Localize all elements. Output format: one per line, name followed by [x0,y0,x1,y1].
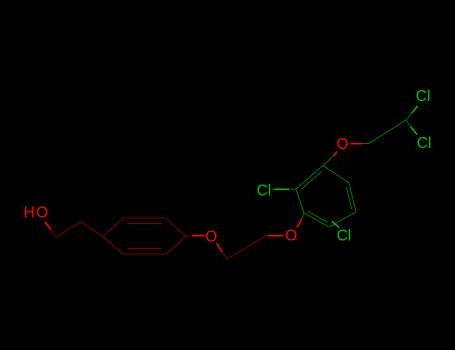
bond C6-Cl top right bright half [412,106,418,113]
bond ring-O2 bright dash [192,235,205,237]
bond O-C1 bright half [45,222,51,230]
bond ring-Otop dim part [323,156,333,165]
bond ring-O2 dim part [186,235,192,238]
bond O2-C3 dim half [222,252,227,259]
bond ring-Otop bright stub [333,152,337,157]
bond C6-Cl top right dim half [406,113,412,120]
bond C4-O3 bright dash [268,235,284,237]
bond C1-C2 [56,222,81,237]
bond C3-C4 [227,236,267,260]
bond ring-Cl left bright dash [274,188,289,190]
benzene ring left [103,218,186,254]
bond C6-Cl right bright half [411,127,417,135]
svg-text:O: O [205,229,217,246]
bond O3-ring dim part [302,213,305,220]
svg-text:O: O [285,227,297,244]
bond C5-C6 [369,120,406,144]
double bond inner top-left edge (right ring) [302,171,323,189]
svg-text:Cl: Cl [417,135,432,152]
bond O-C1 dim half [51,229,57,237]
bond O2-C3 bright half [217,243,223,252]
double bond inner right edge (right ring) [346,187,351,209]
svg-text:Cl: Cl [257,183,272,200]
bond O3-ring bright stub [297,220,302,228]
bond Otop-C5 dim part [362,143,369,145]
svg-text:Cl: Cl [337,228,352,245]
svg-text:HO: HO [24,205,50,222]
svg-text:O: O [337,136,349,153]
benzene ring right [296,166,356,228]
bond C6-Cl right dim half [406,120,411,127]
double bond inner bottom (left ring) [127,248,162,250]
double bond inner bottom-left edge (right ring) [309,212,328,223]
bond ring-Cl left dim stub [289,188,296,190]
bond C4-O3 dim part [267,235,269,237]
bond Otop-C5 bright dash [350,143,362,145]
svg-text:Cl: Cl [416,88,431,105]
bond ring-Cl bottom bright stub [332,222,339,228]
double bond inner top (left ring) [127,223,162,225]
bond C2-ring [81,222,103,237]
